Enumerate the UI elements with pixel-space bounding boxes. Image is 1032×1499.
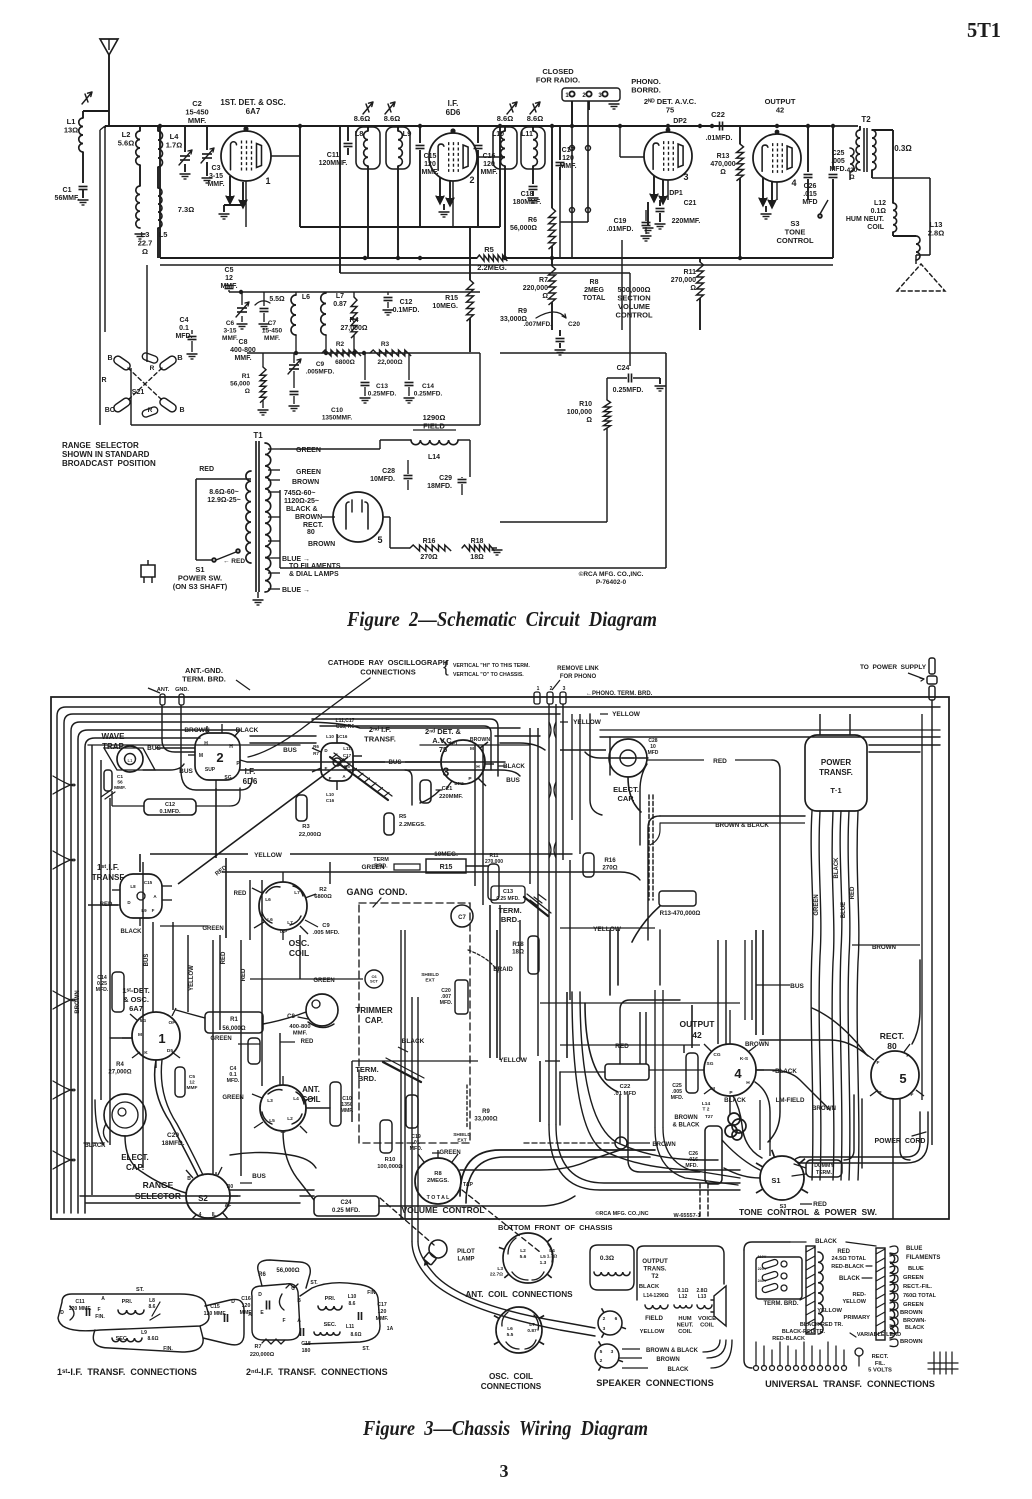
svg-text:TOTAL: TOTAL: [583, 295, 606, 302]
resistor R13: [739, 126, 741, 144]
svg-text:22.7Ω: 22.7Ω: [490, 1272, 503, 1278]
range selector switch S21: [128, 368, 162, 400]
power transf lead bundle: [811, 811, 813, 1180]
svg-text:L11: L11: [346, 1324, 355, 1330]
svg-text:ST.: ST.: [362, 1346, 370, 1352]
svg-text:CATHODE RAY OSCILLOGRAPH: CATHODE RAY OSCILLOGRAPH: [328, 658, 448, 667]
svg-text:L6: L6: [507, 1326, 513, 1332]
svg-text:22,000Ω: 22,000Ω: [299, 832, 322, 838]
fig2 bus dots and extras: [570, 124, 574, 128]
svg-text:T 2: T 2: [703, 1107, 710, 1113]
svg-text:27,000Ω: 27,000Ω: [108, 1070, 131, 1076]
svg-text:OSC. COIL: OSC. COIL: [489, 1372, 533, 1381]
svg-text:TRANSF.: TRANSF.: [364, 735, 396, 744]
svg-text:H: H: [229, 744, 233, 750]
svg-text:L2: L2: [520, 1248, 526, 1254]
svg-text:TERM.: TERM.: [816, 1170, 833, 1176]
power supply plug: [929, 658, 935, 674]
S1 stub pins: [756, 1189, 763, 1193]
phono long verticals: [548, 704, 550, 1125]
svg-text:K: K: [144, 1050, 148, 1056]
svg-text:5.5: 5.5: [507, 1332, 514, 1338]
capacitor C11: [347, 126, 349, 141]
svg-text:C12: C12: [165, 802, 175, 808]
svg-text:D: D: [324, 748, 328, 753]
svg-text:GREEN: GREEN: [313, 978, 334, 984]
svg-text:1: 1: [265, 176, 270, 186]
svg-text:CONTROL: CONTROL: [615, 311, 652, 320]
svg-text:BLACK: BLACK: [639, 1284, 660, 1290]
svg-text:C20: C20: [568, 321, 580, 328]
coil L9: [398, 131, 402, 166]
svg-text:80: 80: [307, 529, 315, 536]
speaker small coils: [645, 1305, 668, 1309]
svg-text:75: 75: [666, 106, 674, 115]
svg-text:BROWN & BLACK: BROWN & BLACK: [715, 822, 769, 829]
svg-text:BORRD.: BORRD.: [631, 86, 661, 95]
svg-text:PRI.: PRI.: [325, 1296, 336, 1302]
svg-text:4: 4: [734, 1066, 742, 1081]
svg-text:TONE CONTROL & POWER SW.: TONE CONTROL & POWER SW.: [739, 1207, 877, 1217]
svg-text:BROWN-: BROWN-: [903, 1318, 926, 1324]
variable capacitor C3: [206, 126, 208, 150]
svg-text:PRIMARY: PRIMARY: [843, 1315, 870, 1321]
svg-text:R6: R6: [528, 217, 537, 224]
svg-text:GANG COND.: GANG COND.: [346, 887, 407, 897]
svg-text:D: D: [60, 1310, 64, 1316]
tube V3 leads: [653, 176, 655, 194]
svg-text:CG: CG: [713, 1052, 720, 1058]
svg-text:L6: L6: [302, 294, 310, 301]
wave trap capacitor C1: [104, 770, 112, 791]
antenna: [100, 39, 118, 55]
T1 secondary taps: [268, 448, 280, 450]
svg-text:BLACK-RED TR.: BLACK-RED TR.: [800, 1322, 844, 1328]
svg-text:L3: L3: [497, 1266, 503, 1272]
svg-text:MFD.: MFD.: [440, 1000, 453, 1006]
svg-text:6800Ω: 6800Ω: [314, 894, 332, 900]
svg-text:TO POWER SUPPLY: TO POWER SUPPLY: [860, 664, 927, 671]
svg-text:1.7Ω: 1.7Ω: [547, 1254, 558, 1260]
dashed braid vertical right: [648, 795, 650, 900]
svg-text:8.6Ω: 8.6Ω: [527, 114, 543, 123]
svg-text:BROWN & BLACK: BROWN & BLACK: [646, 1348, 699, 1354]
svg-text:B: B: [297, 1298, 301, 1304]
svg-text:ELECT.: ELECT.: [121, 1153, 149, 1162]
svg-text:R11: R11: [684, 269, 697, 276]
dashed leaders to bottom diagrams: [462, 1190, 540, 1252]
svg-text:C1: C1: [117, 774, 123, 780]
svg-text:SG: SG: [224, 775, 231, 781]
svg-text:.015: .015: [803, 191, 817, 198]
svg-text:C24: C24: [340, 1200, 352, 1206]
wire into rect80: [760, 1040, 868, 1056]
ant coil chassis: [260, 1085, 306, 1131]
svg-text:E: E: [324, 766, 327, 771]
svg-text:56,000Ω: 56,000Ω: [276, 1268, 299, 1274]
svg-text:L2: L2: [287, 1116, 293, 1122]
coil L4: [158, 131, 163, 167]
1st IF transf chassis: [120, 874, 162, 918]
S21 wires: [112, 368, 114, 413]
phono vertical wires fig2: [571, 101, 573, 258]
svg-text:LAMP: LAMP: [458, 1257, 475, 1263]
svg-text:A: A: [101, 1296, 105, 1302]
2nd IF coils: [318, 1306, 342, 1310]
rectifier tube V5: [333, 492, 383, 542]
capacitor C25: [832, 126, 834, 170]
C25 chassis: [686, 1053, 698, 1093]
universal right stub coils: [890, 1246, 898, 1254]
svg-text:GREEN: GREEN: [903, 1275, 924, 1281]
svg-text:VERTICAL "O" TO CHASSIS.: VERTICAL "O" TO CHASSIS.: [453, 672, 524, 678]
svg-text:GREEN: GREEN: [296, 469, 321, 476]
svg-text:MMF.: MMF.: [114, 785, 126, 791]
svg-text:B: B: [187, 1176, 191, 1182]
svg-text:R4: R4: [116, 1062, 124, 1068]
center long verticals pair1: [400, 930, 402, 1219]
svg-text:MFD.: MFD.: [671, 1095, 684, 1101]
svg-text:C24: C24: [617, 365, 630, 372]
svg-text:M: M: [199, 753, 203, 759]
svg-text:12: 12: [189, 1080, 195, 1086]
svg-text:ANT.: ANT.: [302, 1085, 320, 1094]
svg-text:0.1MFD.: 0.1MFD.: [159, 809, 181, 815]
coil L12 hum neutral: [892, 145, 894, 203]
svg-text:MMF.: MMF.: [234, 355, 251, 362]
coil L5: [158, 188, 162, 228]
capacitor C12 mid: [387, 292, 389, 295]
bottom wire fig2: [280, 567, 666, 569]
svg-text:MMF.: MMF.: [559, 163, 576, 170]
svg-text:5G: 5G: [140, 1018, 147, 1024]
wire segs mid: [339, 126, 341, 273]
universal transf connections diagram: [744, 1242, 790, 1250]
ant gnd leads into chassis: [161, 705, 163, 740]
coil L10: [501, 131, 505, 166]
svg-text:MFD.: MFD.: [685, 1163, 698, 1169]
svg-text:2: 2: [550, 686, 553, 692]
svg-text:YELLOW: YELLOW: [640, 1329, 665, 1335]
svg-text:R9: R9: [482, 1109, 490, 1115]
svg-text:RED: RED: [241, 968, 247, 981]
svg-text:Figure 2—Schematic Circuit: Figure 2—Schematic Circuit Diagram: [346, 607, 657, 631]
svg-text:T2: T2: [651, 1273, 659, 1280]
svg-text:3: 3: [443, 765, 450, 779]
top bus wire: [105, 125, 830, 127]
svg-text:TO FILAMENTS: TO FILAMENTS: [289, 563, 341, 570]
svg-text:BROWN: BROWN: [745, 1041, 770, 1048]
ant coil connections diagram: [503, 1233, 553, 1283]
svg-text:RECT.: RECT.: [872, 1354, 889, 1360]
svg-text:BLACK: BLACK: [121, 929, 143, 935]
svg-text:I.F.: I.F.: [245, 767, 256, 776]
svg-text:GREEN: GREEN: [202, 926, 223, 932]
universal right core: [876, 1248, 885, 1340]
fig3 right-bottom extra wires: [572, 992, 740, 1170]
svg-text:R7: R7: [313, 751, 319, 756]
svg-text:3: 3: [500, 1461, 509, 1481]
svg-text:L7: L7: [287, 920, 293, 926]
svg-text:YELLOW: YELLOW: [842, 1299, 866, 1305]
svg-text:R15: R15: [440, 864, 453, 871]
coil L11: [533, 131, 537, 166]
svg-text:6D6: 6D6: [446, 108, 461, 117]
svg-text:L12: L12: [679, 1294, 688, 1300]
svg-text:BLACK &: BLACK &: [286, 506, 318, 513]
svg-text:TRANS.: TRANS.: [643, 1266, 666, 1273]
svg-text:ST.: ST.: [310, 1280, 318, 1286]
svg-text:470,000: 470,000: [710, 161, 735, 168]
power transf top leads: [819, 714, 821, 735]
osc coil connections diagram: [496, 1307, 542, 1353]
svg-text:← RED: ← RED: [223, 558, 245, 565]
svg-text:D: D: [258, 1292, 262, 1298]
svg-text:R8: R8: [590, 279, 599, 286]
svg-text:RANGE SELECTOR: RANGE SELECTOR: [62, 441, 139, 450]
svg-text:240V: 240V: [758, 1279, 767, 1283]
svg-text:0.25MFD.: 0.25MFD.: [613, 387, 644, 394]
svg-text:R4: R4: [350, 317, 359, 324]
svg-text:FOR RADIO.: FOR RADIO.: [536, 76, 580, 85]
R5 chassis: [384, 813, 394, 835]
capacitor C21: [659, 200, 661, 206]
svg-text:220MMF.: 220MMF.: [439, 794, 463, 800]
coil L1: [79, 118, 83, 152]
fig3 top-right extra wires: [590, 714, 602, 815]
ant coil pins: [282, 1076, 284, 1085]
svg-text:5T1: 5T1: [967, 18, 1001, 42]
svg-text:C18, R6: C18, R6: [336, 724, 355, 730]
svg-text:SG: SG: [707, 1061, 714, 1067]
coil L3: [136, 186, 140, 228]
svg-text:GREEN: GREEN: [903, 1302, 924, 1308]
svg-text:E: E: [260, 1310, 264, 1316]
svg-text:C25: C25: [832, 150, 845, 157]
right side long verticals: [921, 714, 923, 1100]
svg-text:5.5Ω: 5.5Ω: [269, 296, 285, 303]
svg-text:PILOT: PILOT: [457, 1249, 475, 1255]
capacitor C15: [419, 126, 421, 143]
svg-text:BLACK: BLACK: [815, 1238, 837, 1245]
curves into S1: [548, 1124, 550, 1126]
svg-text:FIN.: FIN.: [367, 1290, 377, 1296]
svg-text:TRANSF.: TRANSF.: [819, 768, 853, 777]
wire y330 left: [105, 329, 203, 331]
curve bundle into tube5: [812, 1008, 866, 1054]
svg-text:56,000Ω: 56,000Ω: [510, 225, 537, 232]
svg-text:C12: C12: [400, 299, 413, 306]
svg-text:BUS: BUS: [388, 759, 401, 766]
ant gnd wire drops: [162, 740, 195, 752]
svg-text:C28: C28: [382, 468, 395, 475]
svg-text:L11: L11: [521, 131, 533, 138]
svg-text:MMF.: MMF.: [188, 116, 206, 125]
svg-text:BROWN: BROWN: [900, 1339, 923, 1345]
svg-text:RED: RED: [301, 1039, 314, 1045]
universal right bottom bundle: [933, 1352, 935, 1374]
svg-text:C17: C17: [343, 753, 352, 758]
svg-text:L4: L4: [293, 1096, 299, 1102]
svg-text:GREEN: GREEN: [814, 894, 820, 915]
green wire y979: [250, 978, 363, 980]
capacitor C13: [361, 382, 370, 384]
T1 secondary coil: [265, 443, 271, 592]
svg-text:C22: C22: [620, 1084, 631, 1090]
T2 secondary to speaker wires: [871, 170, 873, 178]
svg-text:L1: L1: [127, 758, 133, 763]
svg-text:220,000: 220,000: [523, 285, 548, 292]
svg-text:10MEG.: 10MEG.: [434, 851, 458, 858]
volume control pins: [418, 1154, 424, 1162]
svg-text:D: D: [127, 900, 131, 905]
svg-text:BLUE →: BLUE →: [282, 587, 310, 594]
1st IF caps: [86, 1308, 88, 1316]
svg-text:R7: R7: [254, 1344, 261, 1350]
svg-text:C7: C7: [268, 320, 277, 327]
more top right wires: [600, 736, 940, 738]
svg-text:TERM.: TERM.: [498, 906, 521, 915]
svg-text:L10: L10: [326, 792, 334, 797]
svg-text:.007MFD.: .007MFD.: [523, 321, 552, 328]
svg-text:1120Ω-25~: 1120Ω-25~: [284, 498, 319, 505]
phono wire lens marks: [549, 722, 551, 738]
svg-text:C26: C26: [804, 183, 817, 190]
svg-text:T·1: T·1: [830, 786, 841, 795]
switch S3 tone control: [818, 214, 822, 218]
svg-text:R2: R2: [319, 887, 326, 893]
V5 wires: [322, 516, 335, 518]
T1 ground: [257, 592, 259, 598]
svg-text:F: F: [877, 1060, 880, 1066]
capacitor C9: [289, 364, 299, 366]
svg-text:42: 42: [692, 1030, 702, 1040]
svg-text:13Ω: 13Ω: [64, 126, 78, 135]
2nd IF transf square fig3: [321, 743, 353, 781]
svg-text:R1: R1: [230, 1017, 238, 1023]
svg-text:HUM NEUT.: HUM NEUT.: [846, 216, 884, 223]
svg-text:BLACK: BLACK: [834, 857, 840, 879]
pilot lamp icon: [417, 1236, 451, 1271]
svg-text:12.9Ω-25~: 12.9Ω-25~: [207, 497, 240, 504]
svg-text:L11: L11: [343, 746, 351, 751]
svg-text:FIN.: FIN.: [163, 1346, 173, 1352]
svg-text:RED: RED: [713, 758, 727, 765]
svg-text:CONNECTIONS: CONNECTIONS: [360, 668, 415, 677]
svg-text:VERTICAL "HI" TO THIS TERM.: VERTICAL "HI" TO THIS TERM.: [453, 663, 530, 669]
svg-text:C8: C8: [239, 339, 248, 346]
1st IF coils: [118, 1310, 144, 1314]
brown dashed wire: [524, 1142, 614, 1144]
svg-text:3: 3: [611, 1349, 614, 1355]
svg-text:18MFD.: 18MFD.: [427, 483, 452, 490]
tube V1 leads and ground: [229, 176, 231, 196]
capacitor C28 schematic: [404, 475, 413, 477]
svg-text:100,000: 100,000: [567, 409, 592, 416]
svg-text:6: 6: [615, 1316, 618, 1322]
svg-text:5.6Ω: 5.6Ω: [118, 139, 134, 148]
svg-text:L7: L7: [294, 890, 300, 896]
top inner wire: [88, 744, 300, 746]
coil L2: [136, 131, 140, 165]
svg-text:C1: C1: [63, 187, 72, 194]
R16 chassis: [583, 853, 594, 877]
svg-text:R3: R3: [381, 341, 390, 348]
svg-text:L13: L13: [698, 1294, 707, 1300]
fig3 lower-left extra wires: [212, 1012, 214, 1174]
wires under field coil: [407, 490, 409, 548]
svg-text:1ˢᵗ.I.F.: 1ˢᵗ.I.F.: [97, 863, 119, 872]
svg-text:1A: 1A: [387, 1326, 394, 1332]
speaker leads from chassis: [412, 1242, 595, 1336]
svg-text:R: R: [150, 365, 155, 372]
fig3 mid extra horizontals: [144, 799, 160, 801]
svg-text:MMF.: MMF.: [293, 1031, 308, 1037]
svg-text:C6: C6: [226, 320, 235, 327]
capacitor C26 schematic: [807, 126, 809, 172]
svg-text:0.25 MFD.: 0.25 MFD.: [496, 896, 520, 902]
antenna trimmer arrow: [82, 92, 92, 104]
svg-text:BLACK: BLACK: [668, 1367, 690, 1373]
variable capacitor C2: [184, 126, 186, 152]
svg-text:2: 2: [469, 175, 474, 185]
right mid verticals: [474, 745, 476, 886]
svg-text:1ST. DET. & OSC.: 1ST. DET. & OSC.: [220, 98, 285, 107]
svg-text:WAVE: WAVE: [102, 732, 126, 741]
svg-text:BUS: BUS: [283, 747, 297, 754]
red wire lower: [560, 1044, 700, 1046]
svg-text:R13: R13: [717, 153, 730, 160]
capacitor C16: [477, 126, 479, 143]
bus wire lower right: [540, 1002, 740, 1004]
hatched shield diagonal: [330, 757, 388, 800]
svg-text:56,000Ω: 56,000Ω: [222, 1026, 245, 1032]
svg-text:C22: C22: [711, 110, 725, 119]
svg-text:RED: RED: [234, 891, 247, 897]
svg-text:B: B: [177, 353, 183, 362]
phono terminals: [534, 692, 540, 704]
svg-text:S21: S21: [132, 389, 145, 396]
svg-text:0.3Ω: 0.3Ω: [600, 1255, 614, 1262]
svg-text:3: 3: [563, 686, 566, 692]
svg-text:TERM. BRD.: TERM. BRD.: [764, 1301, 799, 1307]
svg-text:A: A: [342, 774, 346, 779]
svg-text:MMF.: MMF.: [207, 181, 224, 188]
svg-text:BUS: BUS: [252, 1173, 266, 1180]
tube 3 pins: [440, 738, 447, 745]
svg-text:& BLACK: & BLACK: [673, 1123, 701, 1129]
svg-text:2ⁿᵈ DET. &: 2ⁿᵈ DET. &: [425, 727, 461, 736]
svg-text:{: {: [443, 657, 449, 676]
svg-text:R1: R1: [242, 373, 251, 380]
svg-text:BRD.: BRD.: [358, 1074, 376, 1083]
C7 circle: [451, 905, 473, 927]
svg-text:6800Ω: 6800Ω: [335, 359, 355, 366]
R10 chassis: [380, 1120, 392, 1153]
osc mid wire y353: [247, 352, 480, 354]
svg-text:MMF: MMF: [187, 1085, 198, 1091]
svg-text:R7: R7: [539, 277, 548, 284]
resistor R2: [322, 350, 361, 356]
svg-text:GND.: GND.: [175, 687, 189, 693]
svg-text:12: 12: [225, 275, 233, 282]
svg-text:220,000Ω: 220,000Ω: [250, 1352, 275, 1358]
svg-text:RECT.: RECT.: [880, 1031, 905, 1041]
svg-text:L4: L4: [549, 1248, 555, 1254]
wire osc bottom: [131, 424, 480, 426]
universal core coils: [818, 1252, 823, 1334]
osc coil pins: [282, 872, 284, 882]
